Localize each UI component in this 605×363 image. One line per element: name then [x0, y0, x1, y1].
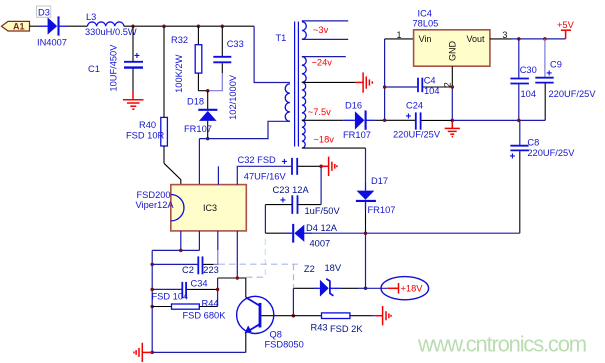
svg-text:R32: R32 — [171, 35, 188, 45]
svg-text:Viper12A: Viper12A — [136, 200, 175, 210]
svg-text:220UF/25V: 220UF/25V — [549, 89, 597, 99]
svg-text:D4 12A: D4 12A — [306, 223, 338, 233]
wire D16 to C24 — [375, 119, 415, 121]
junction node R44 left — [150, 305, 154, 309]
svg-text:GND: GND — [448, 41, 458, 62]
junction node C2 left — [150, 263, 154, 267]
svg-text:FSD 680K: FSD 680K — [183, 310, 227, 320]
svg-text:18V: 18V — [325, 263, 342, 273]
resistor R40 FSD 10R — [126, 26, 167, 163]
transformer primary winding — [285, 84, 290, 121]
wire ~24v tap to ground — [302, 81, 363, 83]
ground (red, rotated) at C32 — [321, 157, 337, 176]
node +18V power flag — [366, 277, 429, 300]
svg-text:Q8: Q8 — [270, 330, 282, 340]
resistor R43 FSD 2K — [261, 313, 376, 334]
junction node C34 left — [150, 288, 154, 292]
junction node R32/C33/D18 — [206, 89, 210, 93]
wire +5V rail from Vout — [490, 38, 566, 40]
wire bottom rail — [152, 351, 246, 353]
wire 18V rail to C8 — [366, 232, 520, 234]
svg-text:D16: D16 — [345, 101, 362, 111]
wire Vin vertical to pin 1 — [384, 39, 386, 120]
ground (red, rotated) after R43 — [376, 306, 391, 325]
svg-text:www.cntronics.com: www.cntronics.com — [417, 332, 586, 357]
svg-text:D17: D17 — [371, 176, 388, 186]
capacitor C23 1uF/50V — [265, 166, 340, 233]
power +5V symbol — [557, 20, 575, 39]
diode D3 IN4007 — [37, 6, 68, 48]
ground (red, rotated) at ~24v tap — [363, 72, 372, 92]
svg-text:C9: C9 — [550, 60, 562, 70]
svg-text:FSD8050: FSD8050 — [265, 340, 304, 350]
svg-text:102/1000V: 102/1000V — [228, 74, 238, 120]
transformer secondary ~7.5v winding — [302, 82, 331, 120]
junction node GND rail — [451, 119, 455, 123]
wire A1 to D3 — [30, 25, 41, 27]
wire corner down to transformer primary top — [254, 26, 290, 82]
wire Z2 anode down to Q8 base rail — [292, 288, 294, 315]
svg-text:~18v: ~18v — [314, 135, 335, 145]
svg-text:104: 104 — [424, 86, 440, 96]
capacitor C1 10UF/450V — [88, 26, 143, 92]
capacitor C30 104 — [510, 39, 536, 121]
svg-text:223: 223 — [203, 265, 219, 275]
svg-text:C33: C33 — [227, 39, 244, 49]
svg-text:220UF/25V: 220UF/25V — [527, 148, 575, 158]
transformer T1 — [276, 22, 299, 147]
capacitor C33 102/1000V — [208, 26, 244, 120]
svg-text:C23 12A: C23 12A — [273, 185, 310, 195]
svg-text:C34: C34 — [191, 278, 208, 288]
svg-text:R43: R43 — [311, 323, 328, 333]
transformer secondary ~3v winding — [302, 21, 348, 40]
svg-text:~7.5v: ~7.5v — [308, 107, 331, 117]
inductor L3 330uH/0.5W — [85, 12, 137, 37]
junction node C34/R44 right — [216, 288, 220, 292]
junction node C30 top — [517, 37, 521, 41]
svg-text:Vout: Vout — [467, 34, 486, 44]
svg-text:R40: R40 — [139, 120, 156, 130]
dashed selection line horizontal — [219, 263, 299, 265]
junction node bottom ground — [150, 351, 154, 355]
svg-text:FSD200: FSD200 — [137, 190, 171, 200]
zener Z2 18V — [293, 263, 365, 297]
wire 18V rail down to Z2 node — [365, 233, 367, 288]
junction node base/R43 — [292, 314, 296, 318]
junction node Vin rail — [383, 119, 387, 123]
svg-text:~24v: ~24v — [312, 58, 333, 68]
resistor R44 FSD 680K — [152, 289, 226, 320]
svg-text:IC4: IC4 — [418, 9, 432, 19]
wire top rail L3 to corner — [124, 25, 254, 27]
capacitor C24 220UF/25V — [393, 101, 452, 140]
ground (red earth) below C1 — [123, 92, 144, 109]
wire GND rail to C30/C8/C9 — [452, 119, 545, 121]
diode D17 FR107 — [356, 176, 396, 233]
svg-text:100K/2W: 100K/2W — [174, 54, 184, 92]
svg-text:FSD 2K: FSD 2K — [330, 324, 363, 334]
resistor R32 100K/2W — [171, 26, 208, 93]
svg-text:+: + — [282, 157, 288, 168]
capacitor C2 223 — [152, 231, 219, 275]
svg-text:220UF/25V: 220UF/25V — [393, 130, 441, 140]
node A1 input tag — [2, 21, 30, 31]
dashed selection line horizontal 2 — [246, 276, 266, 278]
dashed selection line vertical 2 — [293, 264, 295, 288]
svg-text:L3: L3 — [86, 12, 96, 22]
dashed selection line vertical cyan — [264, 239, 266, 278]
junction node Z2 output — [364, 287, 368, 291]
junction node D18/drain — [206, 137, 210, 141]
wire IC3 pins 7,8 bottom — [152, 231, 199, 251]
svg-text:Vin: Vin — [419, 34, 432, 44]
diode D4 4007 — [265, 223, 365, 249]
wire IC3 pin3 stub — [217, 166, 219, 184]
wire Q8 collector up — [237, 278, 246, 297]
junction node pin5 — [236, 276, 240, 280]
junction node C8 top — [517, 119, 521, 123]
svg-text:330uH/0.5W: 330uH/0.5W — [85, 27, 137, 37]
capacitor C32 47UF/16V — [238, 155, 322, 181]
svg-text:C32 FSD: C32 FSD — [238, 155, 277, 165]
svg-text:1uF/50V: 1uF/50V — [305, 206, 341, 216]
svg-text:A1: A1 — [13, 22, 25, 32]
svg-text:+: + — [510, 152, 516, 163]
svg-text:Z2: Z2 — [304, 264, 315, 274]
svg-text:IN4007: IN4007 — [37, 38, 67, 48]
svg-text:C24: C24 — [406, 101, 423, 111]
capacitor C8 220UF/25V — [510, 120, 576, 233]
diode D18 FR107 — [184, 91, 217, 139]
wire left column — [151, 250, 153, 352]
wire IC4 GND pin down — [451, 66, 453, 120]
svg-text:FSD 104: FSD 104 — [152, 292, 189, 302]
capacitor C9 220UF/25V — [535, 39, 596, 121]
capacitor C34 FSD 104 — [152, 278, 218, 302]
svg-text:FR107: FR107 — [184, 124, 212, 134]
transformer secondary ~24v winding — [302, 57, 346, 83]
svg-text:+: + — [406, 111, 412, 122]
junction node at R40 — [162, 24, 166, 28]
svg-text:IC3: IC3 — [203, 203, 217, 213]
wire drain rail to transformer primary bottom — [199, 121, 290, 184]
svg-text:FR107: FR107 — [368, 205, 396, 215]
svg-text:4007: 4007 — [310, 239, 331, 249]
wire R40 diagonal to IC3 pin — [164, 163, 181, 184]
wire Q8 emitter down to bottom rail — [245, 332, 247, 352]
junction node C32/C23 — [319, 165, 323, 169]
svg-text:104: 104 — [521, 89, 537, 99]
wire IC3 pin5 down — [218, 231, 246, 278]
svg-text:~3v: ~3v — [313, 25, 329, 35]
capacitor C4 104 — [385, 76, 453, 96]
ground (red earth) below GND node — [445, 120, 460, 136]
svg-text:R44: R44 — [202, 298, 219, 308]
transformer secondary ~18v winding — [302, 120, 334, 148]
svg-text:3: 3 — [502, 30, 507, 40]
wire ~18v tap to D17 — [302, 148, 366, 183]
junction node 18V rail — [364, 231, 368, 235]
svg-text:+5V: +5V — [557, 20, 575, 30]
svg-text:78L05: 78L05 — [413, 19, 439, 29]
svg-text:C8: C8 — [527, 137, 539, 147]
svg-text:C2: C2 — [182, 265, 194, 275]
svg-text:D3: D3 — [38, 8, 50, 18]
svg-text:C30: C30 — [520, 65, 537, 75]
diode D16 FR107 — [343, 101, 375, 141]
junction node pin8 — [179, 249, 183, 253]
ground (red, rotated left) at bottom rail — [134, 343, 152, 362]
svg-text:D18: D18 — [187, 97, 204, 107]
wire pin1 to IC4 — [385, 38, 414, 40]
svg-text:FSD 10R: FSD 10R — [126, 131, 165, 141]
junction node at C1 — [131, 24, 135, 28]
svg-text:C4: C4 — [424, 76, 436, 86]
wire IC3 pin4 to C32 — [237, 166, 291, 184]
wire D3 to L3 — [68, 25, 88, 27]
op-amp IC3 Viper12A box — [136, 185, 247, 231]
svg-text:47UF/16V: 47UF/16V — [244, 171, 287, 181]
wire ~7.5v tap to D16 — [302, 119, 344, 121]
svg-text:10UF/450V: 10UF/450V — [109, 44, 119, 92]
svg-text:C1: C1 — [88, 64, 100, 74]
svg-text:+18V: +18V — [401, 283, 424, 293]
svg-text:T1: T1 — [276, 33, 287, 43]
junction node at R32 — [197, 24, 201, 28]
junction node C4 left — [383, 85, 387, 89]
svg-text:FR107: FR107 — [343, 130, 371, 140]
junction node at C33 — [221, 24, 225, 28]
svg-text:+: + — [134, 51, 140, 62]
transistor Q8 FSD8050 — [237, 296, 304, 349]
junction node C9 top — [543, 37, 547, 41]
junction node GND/C4 — [451, 85, 455, 89]
op-amp IC4 78L05 regulator box — [413, 9, 490, 67]
